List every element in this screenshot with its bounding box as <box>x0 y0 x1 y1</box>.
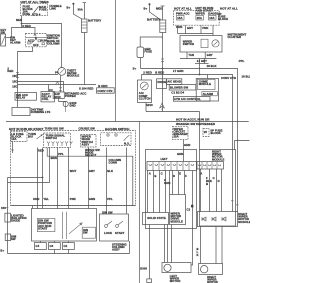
fuse stub 4 <box>212 25 214 35</box>
wire pin D <box>68 148 70 209</box>
svg-text:HOT IN ACCY, RUN OR: HOT IN ACCY, RUN OR <box>176 117 210 121</box>
fusible link symbol on wire <box>56 82 60 85</box>
svg-text:A: A <box>200 172 202 176</box>
svg-text:BLOWER SW: BLOWER SW <box>170 85 188 89</box>
svg-text:MOTOR: MOTOR <box>170 279 181 283</box>
contact bars <box>62 212 64 239</box>
wire right strip pin B <box>209 169 211 212</box>
junction dot on left wire <box>17 74 19 76</box>
svg-text:PWR ACC: PWR ACC <box>176 12 190 16</box>
I/P fuse block dashed (right) <box>174 11 220 26</box>
fuse 3 cell <box>209 15 217 20</box>
svg-text:15C: 15C <box>12 80 17 84</box>
wire strip pin B <box>153 171 155 213</box>
svg-text:WIPER: WIPER <box>195 12 204 16</box>
wire motor2 feed B <box>215 227 217 264</box>
module tall box <box>170 195 186 225</box>
junction dot battery bus <box>162 68 164 70</box>
sub-box D hazard switch <box>101 133 132 146</box>
svg-text:A: A <box>149 172 151 176</box>
stub from y84 wire to accessory box <box>48 85 50 92</box>
wire right strip pin C <box>216 169 218 212</box>
cluster gauge circle <box>212 40 219 47</box>
connector box bottom 2 <box>49 243 61 250</box>
bus into cluster <box>178 33 213 35</box>
cluster output wire 2 <box>204 52 206 59</box>
svg-text:S+: S+ <box>133 66 137 70</box>
svg-text:BLOCK: BLOCK <box>218 17 228 21</box>
svg-text:SW: SW <box>11 237 16 241</box>
long horizontal y73.3 <box>142 75 233 212</box>
fuse switch diagonal <box>34 7 39 14</box>
sub-box C <box>81 135 97 148</box>
svg-text:BRN: BRN <box>51 156 57 160</box>
svg-text:START: START <box>115 231 125 235</box>
svg-text:25: 25 <box>204 130 208 134</box>
divider line top section <box>115 0 117 122</box>
ignition switch pin terminal <box>34 34 36 36</box>
svg-text:18 BLK: 18 BLK <box>242 75 251 79</box>
svg-text:ALARM: ALARM <box>203 92 214 96</box>
fuse sub-box A <box>11 132 28 142</box>
svg-text:D: D <box>218 179 220 183</box>
svg-text:SOLID STATE: SOLID STATE <box>147 216 166 220</box>
convenience center box <box>97 88 115 93</box>
lever curve <box>124 135 130 141</box>
motor 2 circle <box>201 266 208 273</box>
svg-text:GND: GND <box>69 103 75 107</box>
svg-text:18 BLK: 18 BLK <box>207 64 217 68</box>
circuit breaker dashed box <box>172 126 188 139</box>
chime inner box <box>198 79 216 89</box>
horizontal wire y177 <box>8 177 43 179</box>
battery top tick <box>83 2 87 4</box>
svg-text:CONN: CONN <box>109 161 117 165</box>
wire x199 down to box2 <box>199 112 201 150</box>
svg-text:RED: RED <box>7 69 13 73</box>
svg-text:S210: S210 <box>146 103 153 107</box>
small box in box1 <box>82 227 95 238</box>
svg-text:ASSY: ASSY <box>82 142 90 146</box>
svg-text:ALARM: ALARM <box>10 41 21 45</box>
wires below solid state <box>149 225 151 279</box>
outer box bottom line <box>11 205 136 207</box>
horizontal wire y182 <box>8 182 50 184</box>
bottom bus wire <box>8 253 130 255</box>
inner L wire <box>47 148 133 206</box>
svg-text:DIODE: DIODE <box>11 219 20 223</box>
wires below module <box>200 227 202 264</box>
svg-text:B+: B+ <box>67 6 71 10</box>
svg-text:B/U: B/U <box>28 135 33 139</box>
motor 1 box <box>162 263 191 273</box>
svg-text:GRY: GRY <box>187 26 193 30</box>
svg-text:SW: SW <box>83 231 88 235</box>
svg-text:HAZARD SWITCH: HAZARD SWITCH <box>105 127 129 131</box>
svg-text:150: 150 <box>1 206 6 210</box>
junction dot <box>21 23 23 25</box>
cluster relay rect <box>201 39 208 47</box>
svg-text:TURN SIG SW: TURN SIG SW <box>45 127 65 131</box>
generator box <box>137 47 144 58</box>
svg-text:C3: C3 <box>50 244 54 248</box>
fuse 1 cell <box>177 15 185 20</box>
fuse stub 2 <box>185 25 187 33</box>
ignition relay box <box>15 93 37 101</box>
svg-text:BLK: BLK <box>107 169 113 173</box>
wire strip pin E <box>169 171 171 195</box>
wire strip pin D <box>165 171 167 213</box>
svg-text:RUN: RUN <box>41 39 47 43</box>
svg-text:D: D <box>173 174 175 178</box>
breaker wire down <box>183 140 185 162</box>
strip terminals <box>149 164 194 165</box>
chime lower box <box>202 92 217 96</box>
wire x32 lower <box>32 206 34 209</box>
cluster output wires <box>186 52 188 59</box>
connector ticks on long verticals <box>231 200 234 202</box>
connector ticks C100 <box>16 72 19 74</box>
lighted mirror box <box>5 213 10 222</box>
svg-text:C1 B2 D4: C1 B2 D4 <box>171 90 184 94</box>
wire to key switch <box>6 37 12 39</box>
battery feed wire down <box>84 33 86 85</box>
svg-text:C: C <box>161 172 163 176</box>
inner text box <box>37 218 55 231</box>
svg-text:B ORN: B ORN <box>98 84 107 88</box>
ground arrow (right) <box>160 103 165 108</box>
svg-text:IGN SW: IGN SW <box>102 211 113 215</box>
generator wire down to bus <box>140 58 142 69</box>
svg-text:E: E <box>179 172 181 176</box>
svg-text:RTD 4: RTD 4 <box>32 12 41 16</box>
sub-box B dashed <box>44 133 71 148</box>
svg-text:C1: C1 <box>187 208 191 212</box>
svg-text:B: B <box>154 174 156 178</box>
wire from right edge <box>235 141 250 150</box>
wire below circle <box>60 75 62 92</box>
wire strip pin F <box>172 171 174 195</box>
svg-text:N.O.: N.O. <box>124 142 130 146</box>
contacts in box2 <box>105 225 108 228</box>
stub from bus2 to AC compressor <box>141 75 143 81</box>
wire from fuse block down <box>21 16 23 28</box>
wire from B+ <box>73 4 82 19</box>
wire battery top feed <box>83 3 85 19</box>
battery top tick (right) <box>161 5 165 7</box>
svg-text:GRN: GRN <box>89 197 95 201</box>
module box (mid left) <box>12 107 30 115</box>
instrument cluster box <box>180 36 222 53</box>
fuse stubs down <box>177 25 179 33</box>
svg-text:30A: 30A <box>78 8 83 12</box>
svg-text:15C: 15C <box>12 84 17 88</box>
svg-text:B: B <box>206 182 208 186</box>
svg-text:PPL: PPL <box>107 197 113 201</box>
svg-text:SELECT: SELECT <box>85 153 97 157</box>
ignition switch inner bus <box>26 36 46 38</box>
pin wires descending <box>37 148 39 209</box>
svg-text:G303: G303 <box>140 267 147 271</box>
svg-text:ASSY: ASSY <box>112 248 120 252</box>
wire pin C <box>57 148 59 209</box>
svg-text:F: F <box>185 174 187 178</box>
svg-text:B+: B+ <box>0 249 4 253</box>
diode symbols inside <box>202 217 206 221</box>
long horizontal y67.8 <box>141 69 238 212</box>
svg-text:GAGES: GAGES <box>208 12 218 16</box>
wire hazard pin B <box>126 148 128 215</box>
svg-text:C2: C2 <box>49 88 53 92</box>
svg-text:LEFT: LEFT <box>161 157 168 161</box>
svg-text:RUNNING LTS: RUNNING LTS <box>31 110 51 114</box>
connector strip right <box>197 162 224 169</box>
svg-text:C: C <box>213 176 215 180</box>
wire right strip pin D <box>221 169 223 212</box>
svg-text:TAN: TAN <box>188 53 194 57</box>
svg-text:25A: 25A <box>197 16 202 20</box>
connector box bottom 3 <box>63 243 75 250</box>
ignition switch contacts <box>31 39 37 44</box>
svg-text:HTR A/C CONTROL: HTR A/C CONTROL <box>174 97 201 101</box>
svg-text:LINK: LINK <box>49 7 56 11</box>
svg-text:LT GRN: LT GRN <box>173 69 184 73</box>
long wire y71 to right cluster <box>18 74 59 76</box>
stub to connector C4 <box>40 241 42 243</box>
svg-text:RED: RED <box>38 149 44 153</box>
svg-text:C2: C2 <box>64 244 68 248</box>
svg-text:10A: 10A <box>11 137 16 141</box>
wire from B+ to battery <box>150 4 162 20</box>
stub to connector C3 <box>54 241 56 243</box>
lower box on wire <box>5 234 10 241</box>
svg-text:WASHER SW DEPRESSED: WASHER SW DEPRESSED <box>176 122 216 126</box>
stub connector to bus <box>54 250 56 254</box>
svg-text:FUSE: FUSE <box>23 12 31 16</box>
svg-text:MODULE: MODULE <box>212 157 225 161</box>
wire motor1 feed A <box>167 225 169 263</box>
battery B+ dot <box>72 3 74 5</box>
blower box <box>169 84 196 90</box>
chime module outer box <box>196 79 218 102</box>
svg-text:GRY: GRY <box>89 169 95 173</box>
section separator horizontal <box>6 121 249 123</box>
generator wire up <box>140 37 141 47</box>
stub from compressor to y111 wire <box>145 103 147 112</box>
svg-text:PNK: PNK <box>202 26 208 30</box>
A/C compressor module box <box>138 80 152 103</box>
wire motor2 feed C <box>221 227 223 264</box>
wire from ignition switch down-left <box>18 47 33 108</box>
svg-text:CLUTCH: CLUTCH <box>139 96 151 100</box>
svg-text:BATTERY: BATTERY <box>147 18 160 22</box>
svg-text:GRN: GRN <box>177 152 183 156</box>
svg-text:BLOCK: BLOCK <box>211 131 221 135</box>
svg-text:MODULE: MODULE <box>199 82 212 86</box>
motor 2 box <box>199 264 223 275</box>
wire ignition feed pin B <box>42 148 44 209</box>
wire from box2 down to bus <box>129 241 131 254</box>
fuse 2 cell <box>196 15 204 20</box>
svg-text:LOCK: LOCK <box>104 231 112 235</box>
wire turn signal pin <box>49 148 51 183</box>
RAP box <box>53 92 64 98</box>
svg-text:14 GRY: 14 GRY <box>197 59 207 63</box>
switch arrow between A and B <box>37 135 43 140</box>
svg-text:MODULE: MODULE <box>67 74 80 78</box>
svg-text:SWITCH: SWITCH <box>46 136 57 140</box>
svg-text:GRN: GRN <box>164 181 170 185</box>
wire motor1 feed B <box>171 225 173 263</box>
horizontal y58 <box>180 58 216 60</box>
wire wiper switch pin <box>88 148 90 209</box>
svg-text:HOT AT ALL: HOT AT ALL <box>174 6 192 10</box>
battery (right) <box>160 20 166 33</box>
ignition circle component <box>58 68 66 76</box>
svg-text:BATTERY: BATTERY <box>88 19 101 23</box>
svg-text:DIODE: DIODE <box>157 80 166 84</box>
fuse stub 3 <box>200 25 202 33</box>
svg-text:YEL: YEL <box>43 197 49 201</box>
svg-text:COIL: COIL <box>42 97 49 101</box>
left wire down <box>7 178 9 254</box>
svg-text:COLUMN: COLUMN <box>47 41 60 45</box>
svg-text:CONV CTR: CONV CTR <box>97 89 112 93</box>
motor 1 circle <box>164 264 171 271</box>
svg-text:ORN: ORN <box>176 25 182 29</box>
ignition switch dashed box <box>25 34 46 47</box>
solid state box <box>143 213 169 225</box>
svg-text:MOD: MOD <box>54 95 61 99</box>
svg-text:2 RED: 2 RED <box>143 71 152 75</box>
left wiper outer box <box>146 150 197 229</box>
wiper arrow <box>69 224 81 234</box>
svg-text:B RED: B RED <box>155 70 164 74</box>
svg-text:RELAY: RELAY <box>16 95 26 99</box>
connector blob on long wire <box>191 205 193 208</box>
svg-text:WHT: WHT <box>70 169 77 173</box>
key switch diagonal <box>1 36 5 45</box>
stub to chime <box>207 75 209 79</box>
svg-text:B+: B+ <box>144 7 148 11</box>
svg-text:FUSE: FUSE <box>144 49 152 53</box>
right wiper outer box <box>200 150 236 227</box>
svg-text:15A: 15A <box>177 16 182 20</box>
B+ dot (right) <box>149 3 151 5</box>
svg-text:HOT AT ALL: HOT AT ALL <box>220 6 238 10</box>
svg-text:C4: C4 <box>36 244 40 248</box>
svg-text:RED: RED <box>16 18 22 22</box>
box right of compressor <box>157 79 167 89</box>
svg-text:GRN: GRN <box>184 143 190 147</box>
svg-text:25A: 25A <box>173 135 178 139</box>
battery feed down <box>162 33 164 112</box>
stub to connector C2 <box>68 241 70 243</box>
ignition switch detail box1 <box>32 209 97 242</box>
wire hazard pin A <box>106 148 108 215</box>
svg-text:GRY: GRY <box>207 53 213 57</box>
ignition detail box2 <box>100 214 129 241</box>
wire y84 to battery feed <box>18 84 97 86</box>
I/P fuse block box (dashed) <box>21 3 48 15</box>
short wire x199 down <box>199 59 201 75</box>
bottom connector <box>147 279 152 283</box>
svg-text:K: K <box>197 253 199 257</box>
ground circle symbol (left) <box>63 101 68 106</box>
right strip terminals <box>198 165 221 166</box>
svg-text:MODULE: MODULE <box>238 220 250 224</box>
steering column outer dashed box <box>11 131 136 206</box>
connector strip left <box>147 162 197 171</box>
wire strip pin H <box>184 171 186 195</box>
svg-text:START: START <box>38 226 48 230</box>
svg-text:MODULE: MODULE <box>171 219 184 223</box>
svg-text:CRUISE SW: CRUISE SW <box>79 127 96 131</box>
svg-text:A/C HEAD: A/C HEAD <box>167 80 181 84</box>
battery (left) <box>82 19 88 33</box>
wire strip pin C <box>159 171 161 213</box>
svg-text:POWER: POWER <box>65 94 76 98</box>
svg-text:SWITCH: SWITCH <box>183 42 194 46</box>
wires from strip to solid state <box>147 171 149 213</box>
long wire to motor right <box>191 171 193 266</box>
connector box bottom 1 <box>35 243 47 250</box>
wire RAP to ground <box>59 98 66 101</box>
wire solid state to motor1 <box>164 225 166 263</box>
svg-text:PNK: PNK <box>70 197 76 201</box>
connector ticks on battery feed <box>161 58 164 60</box>
contact circles row <box>47 142 73 144</box>
wire horizontal y27 <box>12 28 36 38</box>
wire strip pin G <box>178 171 180 195</box>
stub connector to bus 2 <box>68 250 70 254</box>
svg-text:MEG: MEG <box>156 7 163 11</box>
key switch box <box>1 34 6 46</box>
svg-text:CLUSTER: CLUSTER <box>228 35 242 39</box>
accessory relay box <box>41 92 54 102</box>
svg-text:10A: 10A <box>209 16 214 20</box>
svg-text:S 204 RED: S 204 RED <box>79 86 93 90</box>
wire below sub-box A <box>12 142 14 154</box>
svg-text:PPL: PPL <box>58 152 64 156</box>
svg-text:FUSE: FUSE <box>39 8 47 12</box>
horizontal y63 <box>195 63 209 65</box>
A/C compressor circle <box>140 82 148 90</box>
svg-text:OFF: OFF <box>33 43 39 47</box>
svg-text:CONV CTR: CONV CTR <box>221 76 236 80</box>
wiper motor module box (right) <box>198 212 238 227</box>
A/C control head box <box>166 79 181 85</box>
wire horizontal to right <box>22 24 62 68</box>
wire y79 to box <box>18 82 64 93</box>
wide box <box>173 96 210 101</box>
svg-text:ORN: ORN <box>33 197 39 201</box>
horizontal y111 <box>146 111 200 113</box>
divider line bottom section <box>139 122 141 283</box>
wires from right strip <box>200 169 202 212</box>
connector ticks <box>59 87 62 89</box>
svg-text:PPL: PPL <box>239 59 245 63</box>
tick label <box>5 207 8 209</box>
small fuse box right <box>203 129 209 137</box>
